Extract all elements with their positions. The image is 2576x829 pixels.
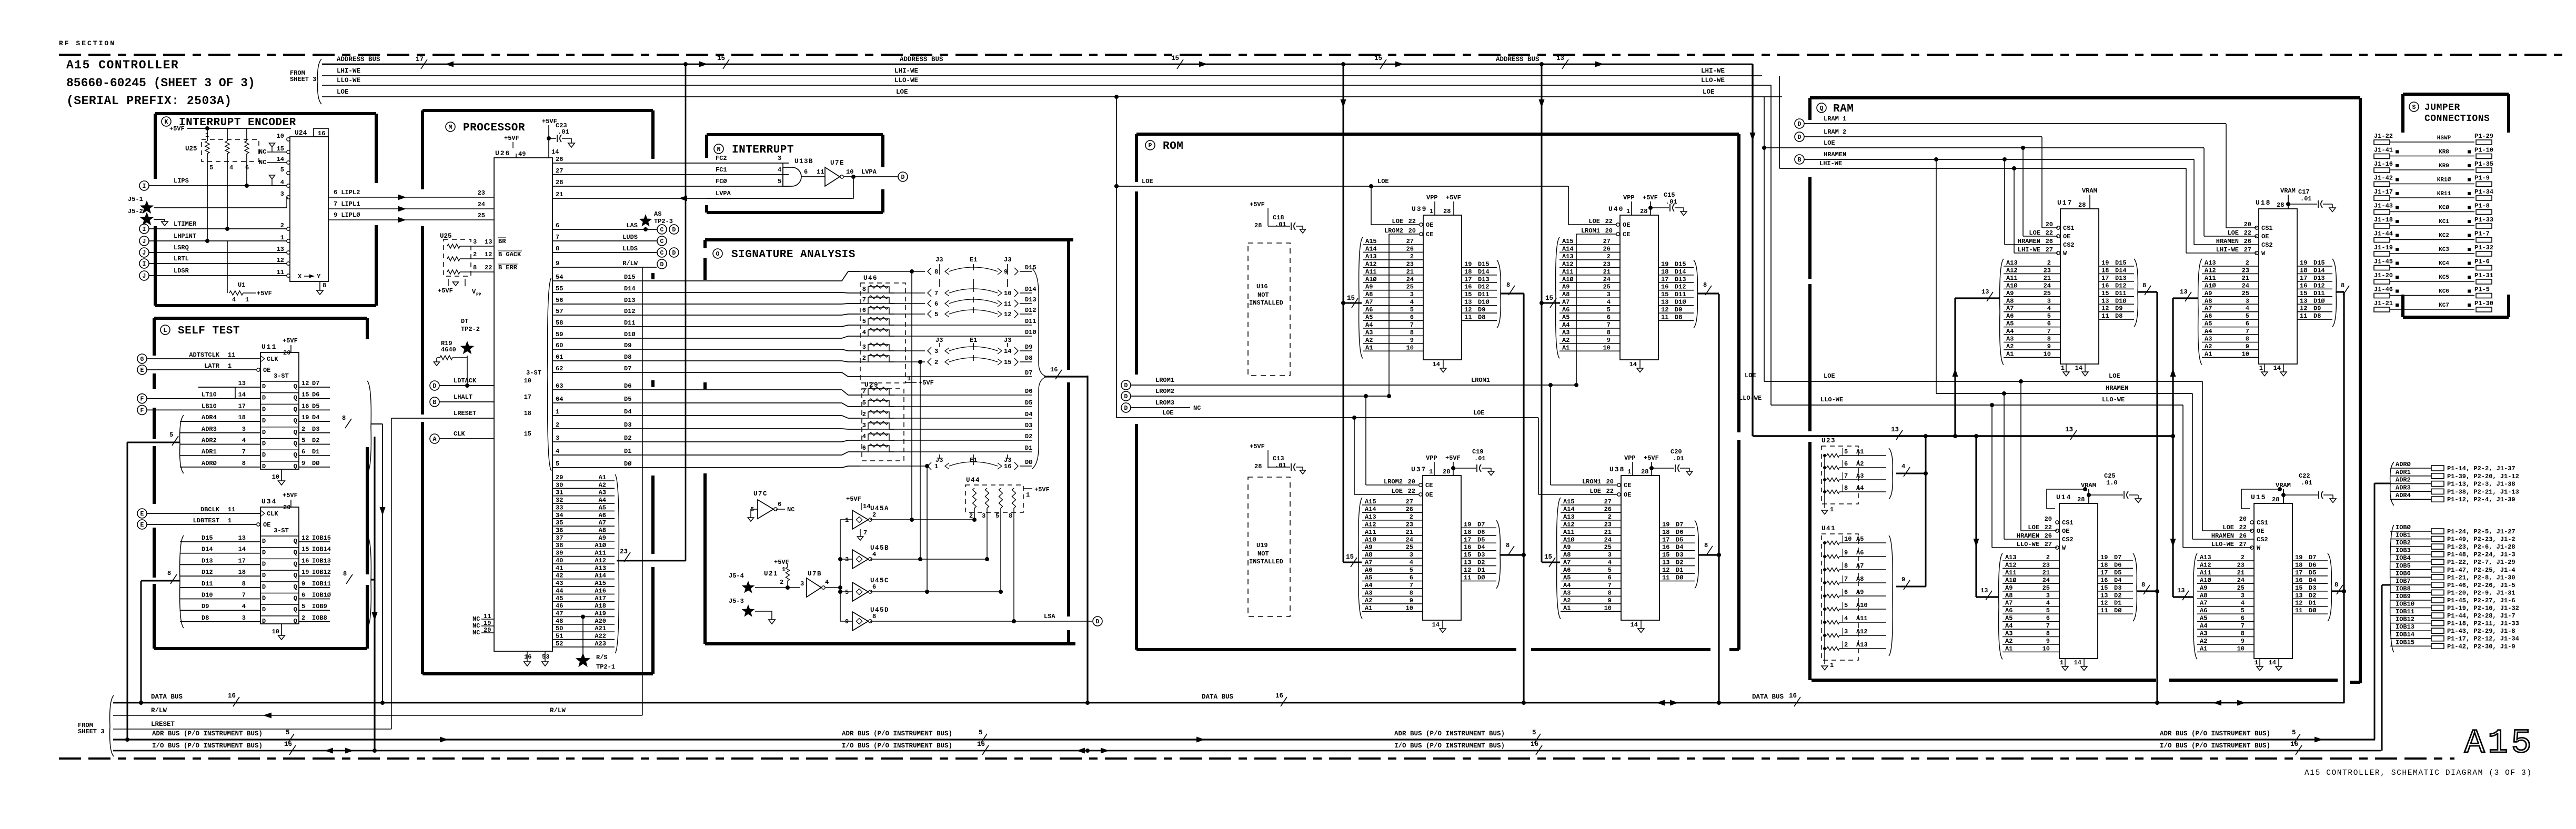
wire 13-bus up to U18 / down to U15 (2172, 298, 2173, 597)
wire HRAMEN mid RAM (1936, 393, 2192, 394)
svg-text:C20: C20 (1671, 448, 1682, 456)
svg-text:OE: OE (2062, 528, 2069, 535)
U37 OE pin (1419, 493, 1422, 496)
wire U15 CS1 (2241, 489, 2280, 509)
svg-text:D6: D6 (1025, 388, 1032, 395)
U39 CE pin (1420, 232, 1423, 236)
U39 8-bus to data vertical (1501, 292, 1524, 294)
svg-text:LHI-WE: LHI-WE (2018, 246, 2040, 254)
wire LVPA feedback (707, 177, 853, 198)
svg-text:G: G (140, 356, 144, 363)
wire U17 CS2 (2004, 159, 2005, 245)
inverter U45B (852, 550, 868, 569)
svg-text:IOB1: IOB1 (2396, 532, 2411, 539)
svg-text:A6: A6 (1563, 567, 1571, 574)
svg-text:A15: A15 (2464, 725, 2534, 763)
svg-text:22: 22 (2046, 229, 2053, 237)
svg-text:50: 50 (556, 625, 563, 632)
svg-text:A3: A3 (2200, 630, 2207, 638)
svg-text:9: 9 (2241, 638, 2245, 645)
svg-text:D2: D2 (2309, 592, 2316, 599)
svg-text:A3: A3 (1365, 589, 1372, 597)
svg-text:LOE: LOE (2029, 229, 2040, 237)
svg-text:+5VF: +5VF (1643, 194, 1658, 201)
svg-text:D4: D4 (2309, 577, 2316, 584)
svg-text:CS2: CS2 (2063, 241, 2075, 249)
svg-text:LLO-WE: LLO-WE (2211, 541, 2234, 548)
svg-text:D4: D4 (1025, 411, 1032, 418)
svg-text:TP2-3: TP2-3 (654, 218, 673, 225)
bus 9-wide from U41 (1896, 586, 1926, 588)
svg-text:18: 18 (1662, 529, 1669, 536)
svg-text:2: 2 (1608, 513, 1612, 521)
svg-text:A1Ø: A1Ø (2200, 577, 2211, 584)
svg-text:IOB1Ø: IOB1Ø (2396, 601, 2414, 608)
svg-text:ADRØ: ADRØ (202, 460, 217, 467)
svg-text:D7: D7 (624, 365, 631, 372)
svg-text:3: 3 (2241, 592, 2245, 599)
U34 row D9 -> IOB9 (260, 604, 299, 605)
svg-text:A4: A4 (2006, 328, 2014, 335)
svg-text:33: 33 (556, 504, 563, 511)
svg-text:8: 8 (1410, 589, 1413, 597)
svg-text:11: 11 (484, 613, 491, 620)
svg-text:8: 8 (2341, 282, 2344, 289)
U18 OE pin (2255, 235, 2258, 238)
svg-text:A4: A4 (1562, 321, 1569, 329)
input LDBTEST (137, 520, 147, 529)
svg-text:A2: A2 (2205, 343, 2212, 350)
svg-text:8: 8 (1844, 484, 1848, 492)
IC U24 body (290, 137, 328, 281)
svg-text:J1-44: J1-44 (2374, 230, 2393, 238)
svg-text:A15: A15 (1365, 238, 1377, 245)
svg-text:U11: U11 (261, 343, 277, 351)
svg-text:OE: OE (2063, 233, 2070, 240)
svg-text:7: 7 (863, 529, 867, 537)
svg-text:ADR BUS (P/O INSTRUMENT BUS): ADR BUS (P/O INSTRUMENT BUS) (2160, 730, 2270, 737)
svg-text:54: 54 (556, 274, 563, 281)
svg-text:21: 21 (2044, 275, 2051, 282)
svg-text:D: D (262, 463, 266, 470)
svg-text:IOB8: IOB8 (312, 614, 327, 622)
svg-text:P1-39, P2-20, J1-12: P1-39, P2-20, J1-12 (2447, 473, 2519, 480)
svg-text:14: 14 (1631, 621, 1638, 629)
svg-text:13: 13 (1981, 288, 1989, 296)
brace collecting D rows (1032, 268, 1047, 377)
svg-text:10: 10 (1406, 344, 1414, 351)
svg-text:59: 59 (556, 331, 563, 338)
svg-text:LLO-WE: LLO-WE (1701, 77, 1725, 84)
wire vertical D0 to U45C out (927, 466, 928, 592)
svg-text:D: D (1124, 382, 1128, 389)
svg-text:4: 4 (280, 179, 284, 186)
wire 13-bus down to U14 (1975, 436, 1977, 597)
svg-text:U15: U15 (2251, 493, 2266, 501)
svg-text:P1-49, P2-23, J1-2: P1-49, P2-23, J1-2 (2447, 536, 2515, 543)
svg-text:12: 12 (1661, 306, 1668, 314)
svg-text:5: 5 (1844, 602, 1848, 609)
svg-text:ADR3: ADR3 (2396, 484, 2411, 491)
svg-text:.01: .01 (1673, 455, 1684, 462)
svg-text:A2: A2 (599, 481, 606, 489)
svg-text:A2: A2 (1365, 337, 1373, 344)
svg-text:7: 7 (1844, 472, 1848, 480)
svg-text:21: 21 (1603, 268, 1611, 276)
svg-text:17: 17 (2295, 569, 2302, 577)
input CLK circled A (430, 434, 439, 443)
svg-text:A1: A1 (2200, 645, 2207, 652)
svg-text:A7: A7 (1563, 559, 1571, 567)
svg-text:A7: A7 (1365, 559, 1372, 567)
svg-text:D14: D14 (1478, 268, 1490, 276)
svg-text:D5: D5 (312, 402, 319, 410)
svg-text:4: 4 (556, 448, 559, 455)
svg-text:D13: D13 (1675, 276, 1686, 283)
svg-text:D: D (1798, 121, 1802, 128)
svg-text:LOE: LOE (1824, 372, 1835, 380)
jumper E1 row D14 7-10 (928, 289, 931, 297)
section title S (2409, 102, 2419, 112)
wire LHI-WE (RAM) (1779, 168, 2186, 169)
svg-text:5: 5 (862, 399, 866, 407)
U40 LROM1 wire (1576, 234, 1616, 235)
svg-text:3: 3 (1844, 628, 1848, 635)
wire jog row13 to LT10 (198, 387, 235, 399)
brace IOB connector group (2390, 525, 2394, 652)
svg-text:2: 2 (280, 222, 284, 229)
svg-text:D1: D1 (2114, 600, 2121, 607)
svg-text:CE: CE (1624, 482, 1631, 489)
svg-text:A11: A11 (2006, 275, 2018, 282)
svg-text:A6: A6 (2006, 312, 2014, 320)
svg-text:P1-24, P2-5, J1-27: P1-24, P2-5, J1-27 (2447, 528, 2515, 535)
wire LLO-WE top (322, 85, 1771, 86)
wire U17 W (2014, 168, 2015, 253)
U26 rows LAS LUDS LLDS RLW (552, 229, 657, 230)
svg-text:P1-33: P1-33 (2474, 216, 2493, 224)
svg-text:10: 10 (2044, 350, 2051, 358)
svg-text:HRAMEN: HRAMEN (1824, 151, 1846, 158)
svg-text:57: 57 (556, 308, 563, 315)
svg-text:12: 12 (1662, 567, 1669, 574)
svg-text:Q: Q (294, 538, 297, 545)
svg-text:A4: A4 (1365, 321, 1373, 329)
U38 8-bus to data vertical (1698, 554, 1719, 555)
svg-text:D6: D6 (2114, 561, 2121, 569)
svg-text:D8: D8 (2115, 312, 2122, 320)
svg-text:I: I (143, 226, 146, 233)
IC U15 body (2254, 503, 2292, 659)
svg-text:LLO-WE: LLO-WE (2102, 396, 2125, 403)
svg-text:+5VF: +5VF (1034, 486, 1050, 493)
svg-text:D3: D3 (312, 426, 319, 433)
svg-text:D11: D11 (2313, 290, 2325, 297)
svg-text:V: V (472, 288, 476, 296)
svg-text:8: 8 (343, 570, 347, 578)
jumper E1 row D13 6-11 (928, 300, 931, 307)
svg-text:11: 11 (1464, 314, 1472, 321)
svg-text:D12: D12 (2313, 282, 2325, 289)
wire D15 segment to label (860, 271, 925, 272)
U11 row ADR4 -> D4 (260, 415, 299, 416)
svg-text:LAS: LAS (626, 222, 638, 229)
svg-text:24: 24 (2042, 577, 2050, 584)
svg-text:A6: A6 (1365, 567, 1372, 574)
svg-text:D1Ø: D1Ø (1675, 299, 1686, 306)
svg-text:12: 12 (2295, 600, 2302, 607)
svg-text:1: 1 (228, 517, 232, 524)
svg-text:22: 22 (2239, 524, 2247, 531)
svg-text:P1-47, P2-25, J1-4: P1-47, P2-25, J1-4 (2447, 567, 2515, 574)
section box L SELF TEST border (154, 317, 367, 320)
U34 OE pin (257, 523, 260, 526)
svg-text:A14: A14 (1562, 245, 1574, 252)
IC U14 body (2059, 503, 2098, 659)
svg-text:4: 4 (862, 433, 866, 440)
svg-text:4: 4 (242, 603, 246, 610)
svg-text:KC2: KC2 (2439, 233, 2449, 239)
svg-text:LOE: LOE (1142, 178, 1153, 185)
svg-text:21: 21 (1406, 268, 1414, 276)
svg-text:A12: A12 (2205, 267, 2216, 274)
svg-text:A5: A5 (1365, 314, 1373, 321)
svg-text:HRAMEN: HRAMEN (2018, 238, 2040, 245)
svg-text:5: 5 (2046, 607, 2050, 614)
svg-text:A13: A13 (1563, 513, 1575, 521)
svg-text:LUDS: LUDS (622, 234, 638, 241)
and-gate U13B (782, 163, 783, 186)
svg-text:1: 1 (2255, 659, 2258, 666)
svg-text:U16: U16 (1256, 283, 1268, 290)
svg-text:A1: A1 (1563, 604, 1571, 612)
svg-text:26: 26 (556, 156, 563, 163)
svg-text:19: 19 (484, 620, 491, 627)
svg-text:D14: D14 (1675, 268, 1686, 276)
svg-text:IOB9: IOB9 (312, 603, 327, 610)
U26 data row D12 (552, 314, 860, 315)
svg-text:ADR BUS (P/O INSTRUMENT BUS): ADR BUS (P/O INSTRUMENT BUS) (152, 730, 263, 737)
svg-text:3-ST: 3-ST (526, 369, 541, 377)
svg-text:8: 8 (1607, 329, 1611, 336)
svg-text:13: 13 (1464, 299, 1472, 306)
svg-text:53: 53 (542, 653, 549, 661)
svg-text:17: 17 (238, 557, 246, 564)
svg-text:20: 20 (1408, 227, 1416, 235)
svg-text:5: 5 (286, 729, 290, 736)
svg-text:27: 27 (1406, 238, 1414, 245)
svg-text:1.0: 1.0 (2106, 479, 2118, 487)
svg-text:10: 10 (272, 628, 279, 635)
svg-text:C19: C19 (1472, 448, 1484, 456)
svg-text:19: 19 (2100, 554, 2108, 561)
brace D7-D0 out U11 and 8-bus (367, 381, 371, 473)
svg-text:4: 4 (1410, 559, 1413, 567)
svg-text:11: 11 (2300, 312, 2307, 320)
output LIPL2 (328, 197, 494, 198)
bus 13-wide RAM address bus (1753, 435, 2173, 437)
bus 8-wide data vertical from U18/U15 (2343, 292, 2344, 703)
svg-text:P1-23, P2-6, J1-28: P1-23, P2-6, J1-28 (2447, 543, 2515, 551)
svg-text:28: 28 (1640, 208, 1647, 215)
svg-text:A22: A22 (595, 633, 606, 640)
svg-text:A6: A6 (2005, 607, 2012, 614)
svg-text:3: 3 (280, 190, 284, 198)
svg-text:8: 8 (1506, 542, 1510, 549)
svg-text:C17: C17 (2298, 188, 2310, 196)
svg-text:A23: A23 (595, 640, 606, 648)
svg-text:B ERR: B ERR (498, 264, 518, 271)
svg-text:A2: A2 (1562, 337, 1569, 344)
svg-text:11: 11 (2101, 312, 2109, 320)
wire HRAMEN (1795, 155, 1804, 164)
svg-text:25: 25 (2237, 584, 2245, 592)
U18 address rows (2202, 266, 2259, 267)
svg-text:LHI-WE: LHI-WE (1701, 67, 1725, 75)
svg-text:D: D (1798, 134, 1802, 141)
svg-text:10: 10 (1604, 604, 1612, 612)
svg-text:11: 11 (1464, 574, 1471, 582)
svg-text:LOE: LOE (2109, 372, 2120, 380)
svg-text:7: 7 (1410, 582, 1413, 589)
wire D8 segment to label (889, 361, 925, 362)
U40 CE pin (1616, 232, 1619, 236)
svg-text:28: 28 (1254, 463, 1262, 470)
svg-text:D14: D14 (2313, 267, 2325, 274)
svg-text:DØ: DØ (2114, 607, 2121, 614)
wire LOE upper ROM (1116, 186, 1568, 187)
svg-text:1: 1 (1830, 662, 1834, 669)
svg-text:15: 15 (1545, 295, 1553, 302)
svg-text:13: 13 (2100, 592, 2108, 599)
section title O (713, 249, 722, 258)
svg-text:P1-48, P2-24, J1-3: P1-48, P2-24, J1-3 (2447, 551, 2515, 559)
svg-text:A12: A12 (1856, 628, 1868, 635)
U18 W pin (2255, 251, 2258, 255)
svg-text:3: 3 (242, 614, 246, 622)
svg-text:8: 8 (1703, 281, 1707, 289)
svg-text:18: 18 (1661, 268, 1668, 276)
svg-text:P1-8: P1-8 (2474, 203, 2490, 210)
svg-text:U14: U14 (2056, 493, 2071, 501)
IC U18 body (2259, 209, 2297, 364)
svg-text:RAM: RAM (1833, 103, 1854, 115)
svg-text:8: 8 (167, 570, 171, 577)
svg-text:1: 1 (1627, 468, 1631, 476)
jumper E1 row D15 8-9 (928, 268, 931, 275)
svg-text:A13: A13 (2200, 554, 2211, 561)
svg-text:42: 42 (556, 572, 563, 580)
svg-text:KC3: KC3 (2439, 247, 2449, 253)
svg-text:25: 25 (2042, 584, 2050, 592)
U38 address rows (1561, 504, 1621, 506)
svg-text:D13: D13 (202, 557, 213, 564)
U11 OE pin (257, 368, 260, 371)
svg-text:A6: A6 (1562, 306, 1569, 314)
svg-text:C15: C15 (1664, 191, 1675, 199)
svg-text:U46: U46 (863, 275, 878, 282)
svg-text:A4: A4 (2200, 622, 2207, 630)
svg-text:39: 39 (556, 550, 563, 557)
U11 row LT10 -> D6 (260, 392, 299, 393)
svg-text:A7: A7 (2005, 600, 2012, 607)
svg-text:D9: D9 (2115, 305, 2122, 312)
jumper E1 row D8 2-15 (928, 358, 931, 366)
svg-text:7: 7 (2246, 328, 2249, 335)
U26 data row D5 (552, 403, 860, 407)
U26 data row D11 (552, 325, 860, 327)
svg-text:3-ST: 3-ST (274, 372, 289, 380)
svg-text:D7: D7 (1477, 521, 1485, 528)
svg-text:LROM1: LROM1 (1471, 377, 1490, 384)
svg-text:12: 12 (1464, 567, 1471, 574)
svg-text:J1-19: J1-19 (2374, 244, 2393, 251)
bus DATA BUS bottom (113, 702, 2344, 704)
IC U34 body (260, 507, 299, 624)
U40 address rows (1559, 244, 1620, 245)
svg-text:14: 14 (2273, 365, 2281, 372)
wire U18 W (2186, 168, 2187, 253)
wire LROM3 NC (1121, 403, 1131, 412)
svg-text:D15: D15 (1675, 260, 1686, 268)
svg-text:17: 17 (416, 56, 424, 63)
svg-text:14: 14 (277, 156, 284, 163)
wire address 13-bus vertical to RAM (1752, 64, 1753, 436)
IC U40 body (1620, 215, 1658, 360)
svg-text:1: 1 (1430, 208, 1433, 215)
svg-text:U24: U24 (295, 129, 307, 137)
svg-text:D2: D2 (1477, 559, 1485, 567)
svg-text:A1Ø: A1Ø (1365, 276, 1377, 283)
IC U17 body (2060, 209, 2099, 364)
svg-text:19: 19 (301, 569, 309, 576)
svg-text:LOE: LOE (1392, 218, 1403, 225)
svg-text:D11: D11 (2115, 290, 2127, 297)
svg-text:D: D (1124, 405, 1128, 412)
svg-text:+5VF: +5VF (1446, 194, 1461, 201)
svg-text:8: 8 (934, 268, 938, 276)
svg-text:J3: J3 (935, 337, 943, 344)
svg-text:IOB12: IOB12 (312, 569, 331, 576)
svg-text:17: 17 (238, 402, 246, 410)
svg-text:16: 16 (2290, 741, 2298, 748)
wire LSA output (870, 621, 1092, 622)
svg-text:3: 3 (862, 422, 866, 429)
svg-text:16: 16 (284, 741, 292, 748)
svg-text:9: 9 (556, 260, 559, 267)
bus 8-wide into D group U34 (141, 580, 180, 582)
svg-text:16: 16 (2295, 577, 2302, 584)
svg-text:11: 11 (817, 168, 824, 176)
svg-text:26: 26 (2046, 238, 2053, 245)
IC U37 body (1423, 476, 1461, 620)
svg-text:J5-3: J5-3 (729, 598, 744, 605)
svg-text:85660-60245 (SHEET 3 OF 3): 85660-60245 (SHEET 3 OF 3) (66, 76, 255, 90)
svg-text:C22: C22 (2299, 472, 2310, 480)
svg-text:4: 4 (242, 437, 246, 444)
svg-text:15: 15 (1171, 55, 1179, 62)
testpoint R/S TP2-1 (581, 614, 585, 619)
wire LOE vertical to RAM (1764, 97, 1765, 381)
svg-text:INTERRUPT ENCODER: INTERRUPT ENCODER (179, 117, 296, 129)
svg-text:22: 22 (485, 264, 492, 271)
svg-text:R/LW: R/LW (151, 707, 167, 714)
svg-text:6: 6 (778, 501, 781, 508)
svg-text:J1-18: J1-18 (2374, 216, 2393, 224)
svg-text:LOE: LOE (2222, 524, 2234, 531)
U17 8-bus out (2138, 291, 2157, 292)
bus 8-wide data vertical from U40/U38 (1718, 294, 1719, 703)
